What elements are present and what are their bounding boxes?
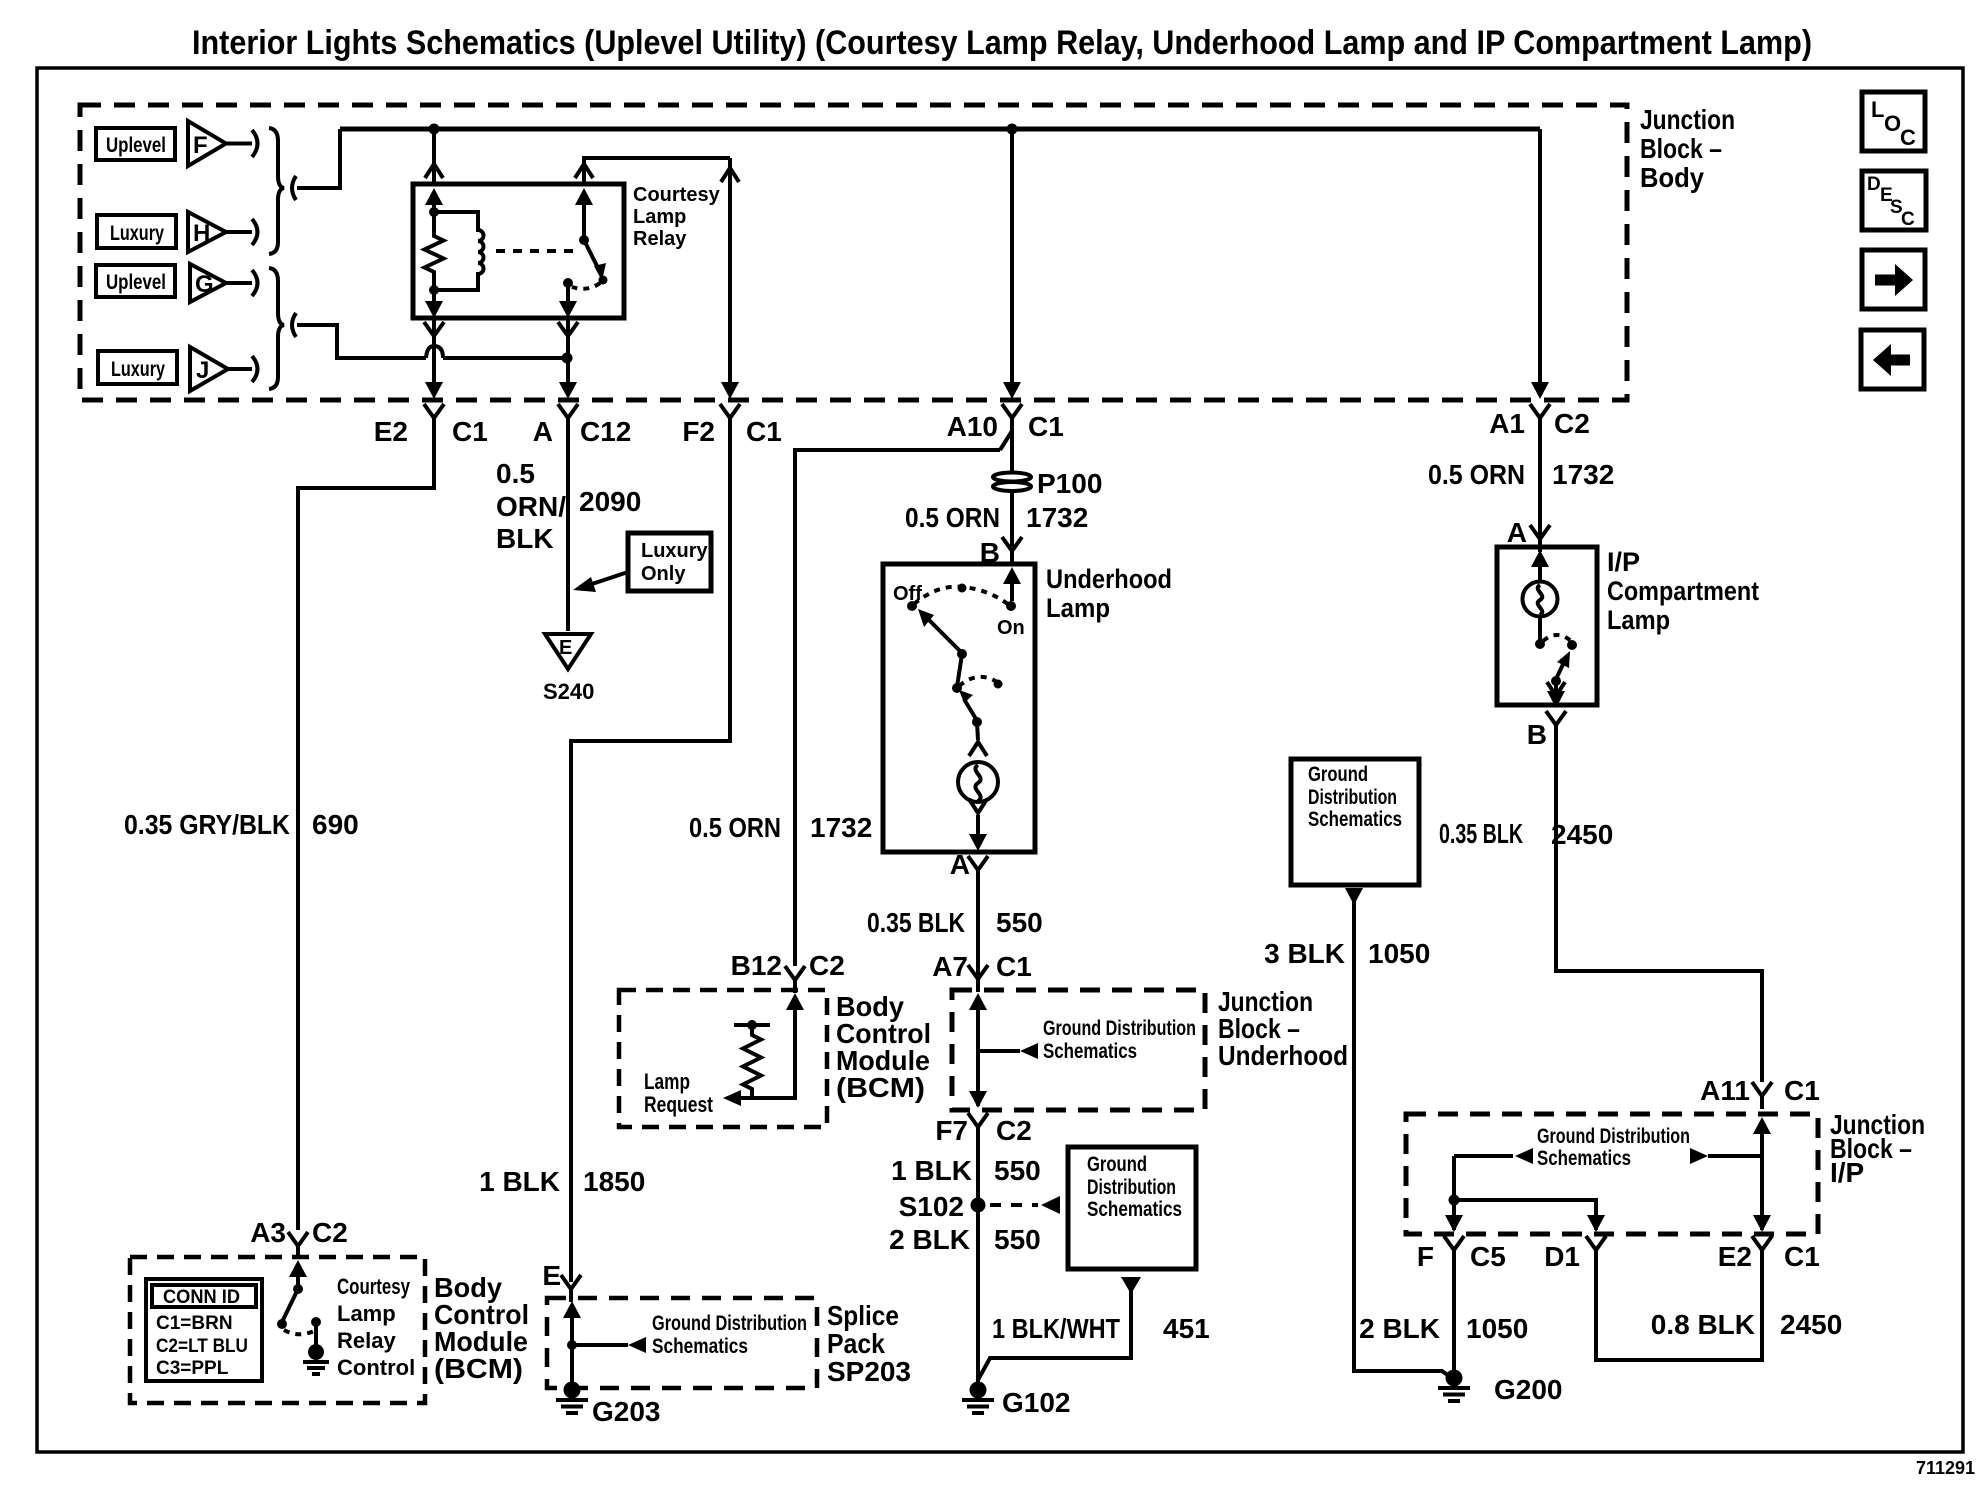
svg-text:0.5 ORN: 0.5 ORN — [1428, 459, 1525, 490]
wire inside splice pack to ground — [570, 1308, 574, 1382]
wire B to A11 (0.35 BLK 2450) — [1556, 725, 1762, 1082]
BCM internal ground — [308, 1344, 324, 1360]
svg-text:Distribution: Distribution — [1087, 1176, 1176, 1199]
wire to F and D1 pins — [1454, 1156, 1596, 1230]
connector B12/C2 — [785, 966, 805, 993]
luxury only pointer arrow — [589, 572, 628, 585]
svg-text:C5: C5 — [1470, 1241, 1506, 1272]
svg-text:Schematics: Schematics — [1537, 1147, 1631, 1170]
forward arrow icon box — [1862, 250, 1925, 309]
svg-text:2450: 2450 — [1551, 819, 1613, 850]
connector E2/C1 below junction block — [424, 404, 444, 431]
svg-text:0.5 ORN: 0.5 ORN — [905, 502, 1000, 533]
svg-text:J: J — [196, 357, 209, 384]
svg-text:C2: C2 — [809, 950, 845, 981]
svg-text:1050: 1050 — [1368, 938, 1430, 969]
relay switch output pin arrow (out) — [566, 283, 570, 305]
BCM switch contact — [311, 1317, 321, 1327]
wire F to G200 (2 BLK 1050) — [1452, 1251, 1456, 1370]
svg-text:Schematics: Schematics — [1043, 1040, 1137, 1063]
svg-text:Compartment: Compartment — [1607, 576, 1759, 606]
I/P lamp bulb — [1523, 582, 1558, 617]
connector A1/C2 below junction block — [1530, 404, 1550, 431]
svg-text:Schematics: Schematics — [1308, 808, 1402, 831]
wire to lamp element — [977, 722, 978, 740]
svg-text:C: C — [1901, 209, 1915, 230]
svg-text:S102: S102 — [899, 1191, 964, 1222]
wire A10 to underhood lamp — [1010, 421, 1014, 547]
svg-text:C1: C1 — [1784, 1075, 1820, 1106]
svg-text:1732: 1732 — [1552, 459, 1614, 490]
svg-text:2 BLK: 2 BLK — [889, 1224, 970, 1255]
svg-text:C2=LT BLU: C2=LT BLU — [156, 1336, 248, 1357]
svg-text:0.35 BLK: 0.35 BLK — [867, 907, 965, 938]
svg-text:A: A — [1507, 517, 1527, 548]
arrow into underhood lamp at B — [1003, 567, 1021, 584]
svg-text:Underhood: Underhood — [1218, 1040, 1348, 1071]
wire B12 to BCM (lamp request) — [795, 450, 1000, 966]
relay resistor — [425, 212, 444, 290]
connector J (Luxury) — [98, 347, 258, 391]
svg-text:Relay: Relay — [337, 1328, 396, 1353]
node: bus to relay coil — [429, 124, 440, 135]
svg-text:P100: P100 — [1037, 468, 1102, 499]
svg-text:CONN ID: CONN ID — [163, 1287, 240, 1308]
relay coil (inductor) — [434, 212, 484, 290]
svg-text:690: 690 — [312, 809, 359, 840]
switch travel arc 2 — [959, 677, 997, 686]
svg-text:Underhood: Underhood — [1046, 564, 1172, 594]
svg-text:Ground Distribution: Ground Distribution — [652, 1312, 807, 1335]
connector A/C12 below junction block — [558, 404, 578, 431]
svg-text:Junction: Junction — [1640, 104, 1735, 135]
wire inside BCM to lamp request — [741, 1000, 795, 1098]
ground G200 — [1438, 1370, 1470, 1402]
wire A/C12 down to S240 — [566, 421, 570, 631]
svg-text:Interior Lights Schematics (Up: Interior Lights Schematics (Uplevel Util… — [192, 24, 1812, 62]
wire A11 through junction block I/P — [1760, 1124, 1764, 1230]
svg-text:S240: S240 — [543, 679, 594, 704]
connector F (Uplevel) — [96, 121, 258, 166]
wire F2 down and across to splice pack (1 BLK 1850) — [571, 421, 730, 1282]
svg-text:On: On — [997, 617, 1025, 639]
svg-text:550: 550 — [994, 1224, 1041, 1255]
svg-text:Schematics: Schematics — [652, 1335, 748, 1358]
svg-text:A7: A7 — [932, 951, 968, 982]
On contact — [1006, 601, 1016, 611]
ground distribution reference arrow (splice pack) — [572, 1343, 628, 1347]
svg-text:A: A — [950, 849, 970, 880]
wire hop over E2 wire — [426, 346, 443, 358]
svg-text:Relay: Relay — [633, 228, 687, 250]
svg-text:Ground: Ground — [1087, 1153, 1147, 1176]
wire bulb to switch — [1538, 616, 1542, 641]
dashed reference from S102 — [990, 1203, 1038, 1207]
LOC icon box — [1862, 92, 1925, 151]
svg-text:Uplevel: Uplevel — [106, 134, 166, 157]
connector A10/C1 below junction block — [1002, 404, 1022, 431]
svg-text:3 BLK: 3 BLK — [1264, 938, 1345, 969]
relay coil pin arrow (in) — [425, 188, 443, 205]
svg-text:ORN/: ORN/ — [496, 491, 566, 522]
connector A3/C2 at BCM — [288, 1232, 308, 1259]
connector D1 — [1586, 1236, 1606, 1263]
svg-text:550: 550 — [996, 907, 1043, 938]
wire A1 to I/P compartment lamp (0.5 ORN 1732) — [1538, 421, 1542, 546]
svg-text:G200: G200 — [1494, 1374, 1563, 1405]
svg-text:C2: C2 — [1554, 408, 1590, 439]
brace joining G and J — [269, 268, 284, 389]
junction block - I/P dashed box — [1406, 1114, 1818, 1234]
svg-text:B12: B12 — [731, 950, 782, 981]
svg-text:C2: C2 — [996, 1115, 1032, 1146]
svg-text:E: E — [559, 637, 572, 659]
svg-text:F2: F2 — [682, 416, 715, 447]
svg-text:D1: D1 — [1544, 1241, 1580, 1272]
wire A to A7 (0.35 BLK 550) — [976, 872, 980, 990]
ground G203 — [556, 1382, 588, 1414]
switch travel arc Off-On — [914, 587, 1009, 605]
svg-text:C1: C1 — [452, 416, 488, 447]
svg-text:F: F — [1417, 1241, 1434, 1272]
connector E2/C1 (I/P) — [1752, 1236, 1772, 1263]
svg-text:Distribution: Distribution — [1308, 786, 1397, 809]
dashed actuator link from coil to switch — [496, 249, 576, 253]
wire F2 from relay common down to junction block edge — [728, 158, 732, 392]
svg-text:Uplevel: Uplevel — [106, 271, 166, 294]
svg-text:Lamp: Lamp — [337, 1301, 396, 1326]
BCM (lamp request) dashed box — [619, 990, 827, 1127]
svg-text:F: F — [193, 132, 208, 159]
relay switch blade — [584, 240, 600, 272]
wire 1 BLK/WHT 451 from box to G102 — [1121, 1277, 1141, 1294]
svg-text:C1: C1 — [1028, 411, 1064, 442]
svg-text:1732: 1732 — [1026, 502, 1088, 533]
back arrow icon box — [1861, 330, 1924, 389]
svg-text:Ground: Ground — [1308, 763, 1368, 786]
underhood switch link — [957, 654, 962, 687]
svg-text:0.35 BLK: 0.35 BLK — [1439, 818, 1523, 849]
underhood lamp box — [883, 564, 1035, 852]
svg-text:1 BLK/WHT: 1 BLK/WHT — [992, 1313, 1120, 1344]
svg-text:L: L — [1871, 97, 1884, 122]
top bus wire — [340, 127, 1540, 132]
CONN ID table — [146, 1279, 262, 1381]
svg-text:G: G — [195, 271, 214, 298]
wire from G/J brace to relay output — [297, 325, 426, 358]
in-line connector P100 — [993, 473, 1031, 482]
svg-text:0.8 BLK: 0.8 BLK — [1651, 1309, 1755, 1340]
ground distribution reference arrow (underhood) — [978, 1049, 1020, 1053]
I/P lamp output — [1554, 681, 1558, 691]
underhood switch blade 2 — [964, 699, 976, 719]
wire to node on relay switch output — [443, 356, 567, 360]
svg-text:550: 550 — [994, 1155, 1041, 1186]
svg-text:E2: E2 — [374, 416, 408, 447]
connector G (Uplevel) — [96, 264, 258, 302]
wire E2 to BCM A3 (0.35 GRY/BLK 690) — [298, 421, 434, 1230]
svg-text:Lamp: Lamp — [633, 206, 686, 228]
relay switch travel arc (dashed) — [572, 283, 600, 289]
svg-text:A: A — [533, 416, 553, 447]
node bottom of resistor/coil — [429, 285, 439, 295]
node in splice pack — [567, 1340, 577, 1350]
svg-text:0.5 ORN: 0.5 ORN — [689, 812, 781, 843]
connector A7/C1 — [968, 965, 988, 992]
wire relay pin E2 down to junction block edge — [432, 318, 436, 392]
arrow into BCM at B12 — [786, 993, 804, 1010]
arrow into splice pack — [563, 1301, 581, 1318]
half connector at G/J brace output — [292, 313, 296, 337]
svg-text:2090: 2090 — [579, 486, 641, 517]
svg-text:Pack: Pack — [827, 1328, 885, 1359]
svg-text:711291: 711291 — [1916, 1458, 1975, 1478]
I/P compartment lamp box — [1497, 547, 1597, 705]
svg-text:C2: C2 — [312, 1217, 348, 1248]
wire D1-E2 loop (0.8 BLK 2450) — [1596, 1251, 1762, 1360]
wire 3 BLK 1050 from box to G200 — [1345, 888, 1363, 905]
bulb output — [969, 799, 987, 813]
svg-text:2450: 2450 — [1780, 1309, 1842, 1340]
svg-text:C1: C1 — [996, 951, 1032, 982]
BCM switch travel arc — [284, 1330, 314, 1334]
svg-text:C1: C1 — [1784, 1241, 1820, 1272]
connector F/C5 — [1444, 1236, 1464, 1263]
relay switch contact — [563, 278, 573, 288]
wire A10 from bus down to junction block edge — [1010, 129, 1014, 392]
svg-text:0.35 GRY/BLK: 0.35 GRY/BLK — [124, 809, 290, 840]
underhood switch blade 1 — [927, 618, 961, 652]
svg-text:A11: A11 — [1700, 1075, 1750, 1106]
I/P switch travel arc — [1543, 635, 1571, 641]
relay switch pivot — [579, 235, 589, 245]
pin B of I/P lamp — [1546, 711, 1566, 738]
ground distribution schematics box (I/P) — [1291, 759, 1419, 885]
diagonal joint to A10 connector — [1000, 431, 1012, 450]
connector A11/C1 — [1752, 1082, 1772, 1109]
wire through junction block underhood — [976, 1000, 980, 1106]
connector half on relay coil feed — [425, 164, 443, 178]
arrows leaving junction block body at E2 / A — [425, 382, 443, 399]
wire F7 to G102 — [976, 1127, 980, 1382]
svg-text:A1: A1 — [1489, 408, 1525, 439]
arrow into I/P lamp at A — [1531, 550, 1549, 567]
svg-text:A10: A10 — [947, 411, 998, 442]
relay coil pin wire from bus — [432, 129, 436, 184]
relay switch common pin from F2 wire — [584, 158, 730, 184]
svg-text:I/P: I/P — [1830, 1157, 1864, 1188]
svg-text:D: D — [1867, 174, 1881, 195]
svg-text:A3: A3 — [250, 1217, 286, 1248]
svg-text:0.5: 0.5 — [496, 458, 535, 489]
svg-text:E: E — [542, 1260, 561, 1291]
svg-text:Luxury: Luxury — [111, 358, 165, 381]
relay switch common arrow (in) — [575, 188, 593, 205]
svg-text:C1=BRN: C1=BRN — [156, 1313, 233, 1334]
svg-text:1 BLK: 1 BLK — [891, 1155, 972, 1186]
svg-text:1050: 1050 — [1466, 1313, 1528, 1344]
arrow into junction block I/P at A11 — [1753, 1117, 1771, 1134]
svg-text:C1: C1 — [746, 416, 782, 447]
splice S240 symbol — [545, 634, 591, 669]
svg-text:Courtesy: Courtesy — [633, 184, 721, 206]
svg-text:451: 451 — [1163, 1313, 1210, 1344]
svg-text:1732: 1732 — [810, 812, 872, 843]
node top of resistor/coil — [429, 207, 439, 217]
svg-text:Ground Distribution: Ground Distribution — [1043, 1017, 1196, 1040]
BCM switch pivot — [293, 1284, 303, 1294]
ground G102 — [962, 1382, 994, 1414]
arrow into BCM at A3 — [289, 1260, 307, 1277]
connector F7/C2 — [968, 1113, 988, 1140]
svg-text:Splice: Splice — [827, 1300, 899, 1331]
svg-text:Lamp: Lamp — [1607, 605, 1670, 635]
arrow out of junction block underhood — [969, 1091, 987, 1108]
relay coil return pin arrow (out) — [432, 290, 436, 305]
svg-text:C12: C12 — [580, 416, 631, 447]
ground distribution schematics box (underhood) — [1068, 1147, 1196, 1269]
svg-text:Luxury: Luxury — [110, 222, 164, 245]
svg-text:O: O — [1884, 111, 1901, 136]
svg-text:Request: Request — [644, 1092, 714, 1117]
lamp request resistor — [734, 1025, 770, 1098]
BCM switch blade — [282, 1289, 298, 1322]
svg-text:Luxury: Luxury — [641, 540, 709, 562]
node on A/C12 wire — [562, 353, 573, 364]
arrow into junction block underhood — [969, 993, 987, 1010]
svg-text:G102: G102 — [1002, 1387, 1071, 1418]
half connector at F/H brace output — [292, 176, 296, 200]
svg-text:Ground Distribution: Ground Distribution — [1537, 1125, 1690, 1148]
splice pack SP203 dashed box — [547, 1298, 817, 1388]
svg-text:F7: F7 — [935, 1115, 968, 1146]
svg-text:(BCM): (BCM) — [836, 1072, 925, 1103]
luxury only box — [628, 533, 711, 591]
connector halves below relay — [424, 322, 444, 349]
svg-text:Schematics: Schematics — [1087, 1198, 1182, 1221]
svg-text:BLK: BLK — [496, 523, 554, 554]
node: bus to A10 wire — [1007, 124, 1018, 135]
BCM (courtesy lamp relay control) dashed box — [130, 1257, 425, 1403]
svg-text:Control: Control — [337, 1355, 415, 1380]
DESC icon box — [1862, 171, 1926, 230]
junction block - underhood dashed box — [952, 990, 1205, 1110]
svg-text:Body: Body — [1640, 162, 1704, 193]
svg-text:B: B — [1527, 719, 1547, 750]
svg-text:Block –: Block – — [1640, 133, 1722, 164]
connector half on relay switch common — [575, 164, 593, 178]
wire A1 from bus down to junction block edge — [1538, 129, 1542, 392]
svg-text:Courtesy: Courtesy — [337, 1274, 411, 1299]
svg-text:E2: E2 — [1718, 1241, 1752, 1272]
svg-text:(BCM): (BCM) — [434, 1353, 523, 1384]
underhood lamp bulb — [958, 762, 998, 802]
svg-text:C3=PPL: C3=PPL — [156, 1358, 229, 1379]
svg-text:I/P: I/P — [1607, 547, 1640, 577]
junction block - body dashed box — [80, 105, 1627, 400]
svg-text:Lamp: Lamp — [1046, 593, 1110, 623]
connector F2/C1 below junction block — [720, 404, 740, 431]
I/P switch blade — [1557, 658, 1566, 677]
courtesy lamp relay box — [413, 184, 624, 318]
brace joining F and H — [269, 128, 284, 254]
wire relay pin A down to junction block edge — [566, 318, 570, 392]
svg-text:SP203: SP203 — [827, 1356, 911, 1387]
svg-text:G203: G203 — [592, 1396, 661, 1427]
svg-text:H: H — [193, 220, 210, 247]
svg-text:C: C — [1900, 125, 1916, 150]
svg-text:1850: 1850 — [583, 1166, 645, 1197]
svg-text:2 BLK: 2 BLK — [1359, 1313, 1440, 1344]
svg-text:Lamp: Lamp — [644, 1069, 690, 1094]
connector H (Luxury) — [97, 212, 258, 252]
svg-text:1 BLK: 1 BLK — [479, 1166, 560, 1197]
svg-text:Only: Only — [641, 563, 686, 585]
pin A of underhood lamp — [968, 856, 988, 883]
wire from F/H brace to top bus — [297, 129, 340, 188]
